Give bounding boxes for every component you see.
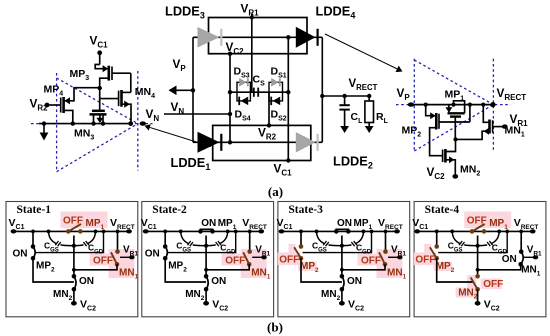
chain wire (flipping cap row) [230, 91, 288, 93]
svg-text:OFF: OFF [279, 255, 299, 266]
terminal V_R1 [120, 256, 130, 258]
capacitor C_GS arc [49, 231, 57, 243]
terminal V_C2 [73, 289, 75, 301]
rail V_P (left) [192, 37, 194, 142]
resistor R_L [368, 96, 370, 101]
switch MN2 [475, 274, 480, 279]
wire V_C1 column (right) [287, 37, 289, 160]
pointer to right circuit [325, 34, 397, 69]
switch MN2 [204, 274, 209, 279]
svg-text:LDDE3: LDDE3 [165, 4, 205, 21]
node V_R1 stub [251, 14, 253, 92]
svg-text:State-2: State-2 [152, 204, 187, 216]
switch MP1 [66, 229, 71, 234]
wire MN1 source link [456, 131, 489, 139]
wire bottom diode row [193, 141, 322, 143]
MP1 gate column [341, 236, 343, 277]
rail V_RECT [321, 37, 323, 142]
svg-text:OFF: OFF [415, 255, 435, 266]
svg-text:ON: ON [347, 276, 362, 287]
switch MP1 [470, 229, 475, 234]
diode LDDE4 (black) [296, 27, 316, 48]
MN1 source wire [342, 264, 385, 270]
switch MN2 [72, 274, 77, 279]
MP2 drain wire [437, 258, 474, 282]
svg-text:(b): (b) [267, 320, 283, 335]
state panel 4 [414, 202, 546, 317]
svg-text:ON: ON [211, 276, 226, 287]
svg-text:OFF: OFF [63, 216, 83, 227]
diode D_S1 (gray) [271, 78, 278, 87]
left circuit blue dashed horizontal [31, 123, 153, 125]
capacitor C_GD arc [88, 231, 96, 243]
capacitor C_L [344, 96, 346, 105]
switch MN1 [249, 231, 251, 251]
svg-text:LDDE4: LDDE4 [316, 4, 356, 21]
state panel 2 [142, 202, 274, 317]
terminal arrow V_P [191, 88, 195, 92]
highlight MP1 OFF [464, 212, 511, 229]
main wire V_P to V_RECT [411, 104, 493, 106]
gate to V_RECT link [303, 231, 372, 252]
diode D_S2 (black) [273, 97, 281, 106]
highlight MN1 area [222, 254, 244, 266]
terminal V_C2 (right) [452, 174, 458, 179]
MP1 gate column [477, 236, 479, 277]
svg-text:OFF: OFF [361, 256, 381, 267]
diode LDDE2 (gray) [296, 132, 316, 153]
rail junctions [163, 230, 167, 234]
node V_C1 dot [286, 158, 290, 162]
svg-text:(a): (a) [268, 184, 283, 199]
right circuit blue dashed horizontal [396, 104, 511, 106]
node between LDDE3/LDDE4 [286, 35, 290, 39]
wire V_RECT output [322, 95, 369, 97]
svg-text:ON: ON [145, 249, 160, 260]
state panel 3 [278, 202, 410, 317]
node V_RECT (right) [490, 102, 495, 107]
switch MP2 [300, 231, 302, 246]
bottom box (LDDE1/LDDE2 block) [213, 125, 311, 160]
MN1 source wire [478, 264, 521, 270]
switch MN1 [385, 231, 387, 251]
MN1 source wire [206, 264, 249, 270]
node MP3 drain dot [98, 86, 102, 90]
switch MP2 [32, 231, 34, 246]
node between LDDE1/LDDE2 [228, 140, 232, 144]
diode D_S3 (gray) [239, 78, 246, 87]
left circuit blue dashed vertical [137, 71, 139, 171]
capacitor C_GD arc [356, 231, 364, 243]
loop D_S3/D_S4 [237, 82, 250, 101]
terminal V_C2 [205, 289, 207, 301]
right circuit blue dashed triangle [413, 59, 415, 151]
MP1 gate column [73, 236, 75, 277]
transistor MP4 [47, 104, 61, 106]
svg-text:ON: ON [201, 218, 216, 229]
terminal V_C2 [477, 289, 479, 301]
state panel 1 [6, 202, 138, 317]
svg-text:LDDE1: LDDE1 [171, 155, 211, 172]
top rail [417, 230, 533, 232]
svg-text:OFF: OFF [483, 279, 503, 290]
left circuit bottom rail [39, 123, 131, 125]
highlight MP2 OFF [278, 253, 301, 266]
capacitor C_GD arc [492, 231, 500, 243]
switch MP1 [334, 229, 339, 234]
left circuit blue dashed triangle [56, 73, 58, 172]
svg-text:ON: ON [79, 276, 94, 287]
top box (LDDE3/LDDE4 block) [209, 18, 308, 54]
svg-text:ON: ON [337, 218, 352, 229]
terminal V_R1 [252, 256, 262, 258]
right circuit blue dashed vertical [492, 59, 494, 151]
highlight MP2 OFF [414, 253, 437, 266]
top rail [14, 230, 130, 232]
highlight MP1 OFF [61, 212, 108, 229]
switch MP2 [436, 231, 438, 246]
capacitor C_GS arc [317, 231, 325, 243]
terminal V_C2 [341, 289, 343, 301]
rail junctions [31, 230, 35, 234]
node V_C2 dot [228, 52, 232, 56]
terminal V_R1 [388, 256, 398, 258]
svg-text:OFF: OFF [225, 256, 245, 267]
MN1 source wire [74, 264, 117, 270]
wire V_R2 drop [268, 92, 270, 125]
diode D_S4 (black) [241, 97, 249, 106]
gate to V_RECT link [167, 231, 236, 252]
transistor MN3 (MOS cap) [99, 88, 101, 111]
switch MN2 [340, 274, 345, 279]
switch MN1 [520, 231, 522, 251]
svg-text:ON: ON [502, 254, 517, 265]
diode LDDE1 (black) [198, 132, 220, 153]
terminal V_R1 [524, 256, 534, 258]
gate to V_RECT link [35, 231, 104, 252]
MP2 drain wire [301, 258, 342, 282]
svg-text:State-1: State-1 [17, 204, 52, 216]
wire top diode row [193, 36, 322, 38]
top rail [146, 230, 262, 232]
svg-text:State-3: State-3 [288, 204, 323, 216]
terminal V_P (right) [408, 102, 414, 106]
svg-text:ON: ON [13, 249, 28, 260]
rail junctions [299, 230, 303, 234]
gate to V_RECT link [438, 231, 507, 252]
wire V_N [164, 113, 230, 115]
pointer to left circuit V_N [150, 127, 211, 146]
loop D_S1/D_S2 [269, 82, 283, 101]
capacitor C_GS arc [181, 231, 189, 243]
node V_N terminal (left circuit) [140, 121, 146, 125]
MP2 drain wire [33, 258, 74, 282]
node MP1 gate / MN2 drain [453, 137, 457, 141]
capacitor C_GD arc [220, 231, 228, 243]
highlight MN2 OFF [481, 279, 502, 290]
MP2 drain wire [165, 258, 206, 282]
svg-text:LDDE2: LDDE2 [333, 154, 373, 171]
ground (left circuit) [43, 124, 45, 133]
transistor MN4 [130, 73, 132, 92]
rail junctions [435, 230, 439, 234]
transistor MP3 [99, 53, 101, 65]
svg-text:OFF: OFF [467, 216, 487, 227]
highlight MN1 area [90, 254, 112, 266]
capacitor C_GS arc [452, 231, 460, 243]
switch MP2 [164, 231, 166, 246]
highlight MN1 area [358, 254, 380, 266]
switch MP1 [198, 229, 203, 234]
MP1 gate column [205, 236, 207, 277]
svg-text:State-4: State-4 [425, 204, 460, 216]
capacitor C_S [253, 88, 255, 97]
svg-text:OFF: OFF [93, 256, 113, 267]
switch MN1 [117, 231, 119, 251]
diode LDDE3 (gray) [198, 27, 220, 48]
terminal V_R1 (right) [502, 124, 508, 128]
top rail [282, 230, 398, 232]
wire V_C2/V_N column [229, 54, 231, 143]
